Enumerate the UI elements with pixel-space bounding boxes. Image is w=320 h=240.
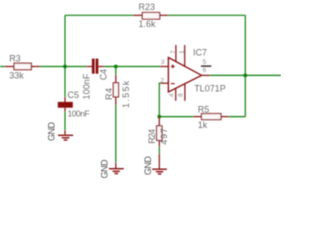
svg-text:5: 5: [203, 59, 207, 66]
svg-text:GND: GND: [46, 121, 56, 141]
svg-text:2: 2: [160, 77, 164, 84]
svg-text:6: 6: [203, 67, 207, 74]
svg-text:1: 1: [179, 50, 186, 54]
svg-text:R23: R23: [139, 2, 156, 12]
svg-text:C5: C5: [68, 90, 80, 100]
svg-text:33k: 33k: [9, 71, 24, 81]
svg-text:3: 3: [161, 59, 165, 66]
svg-text:100nF: 100nF: [81, 73, 91, 99]
svg-text:1k: 1k: [198, 120, 208, 130]
svg-text:R4: R4: [104, 87, 114, 100]
svg-text:4: 4: [168, 93, 175, 97]
svg-text:R5: R5: [198, 104, 210, 114]
svg-text:7: 7: [170, 50, 177, 54]
svg-text:100nF: 100nF: [68, 108, 90, 118]
svg-text:GND: GND: [99, 159, 109, 179]
svg-text:8: 8: [178, 93, 185, 97]
svg-text:1.55k: 1.55k: [121, 79, 131, 108]
svg-text:R24: R24: [147, 129, 157, 144]
svg-text:C4: C4: [98, 69, 108, 80]
svg-text:1.6k: 1.6k: [139, 19, 157, 29]
svg-text:497: 497: [159, 127, 169, 144]
svg-text:R3: R3: [9, 54, 21, 64]
svg-text:GND: GND: [143, 156, 153, 176]
svg-text:IC7: IC7: [193, 48, 207, 58]
svg-text:TL071P: TL071P: [194, 83, 226, 93]
